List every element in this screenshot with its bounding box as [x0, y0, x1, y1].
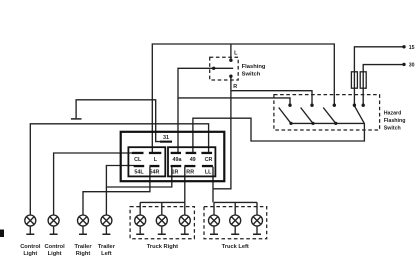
- svg-text:49a: 49a: [173, 157, 183, 163]
- svg-text:31: 31: [163, 135, 169, 141]
- svg-text:Trailer: Trailer: [98, 244, 116, 250]
- svg-text:L: L: [234, 50, 238, 56]
- svg-text:49: 49: [190, 157, 196, 163]
- svg-text:Trailer: Trailer: [74, 244, 92, 250]
- svg-text:Switch: Switch: [384, 125, 401, 131]
- svg-text:RR: RR: [186, 169, 194, 175]
- svg-text:Right: Right: [76, 251, 91, 257]
- svg-text:Left: Left: [101, 251, 112, 257]
- svg-text:Light: Light: [48, 251, 62, 257]
- svg-text:1R: 1R: [172, 169, 179, 175]
- svg-text:CL: CL: [134, 157, 142, 163]
- svg-text:Truck Left: Truck Left: [222, 244, 249, 250]
- svg-text:Control: Control: [20, 244, 41, 250]
- svg-text:Flashing: Flashing: [242, 64, 266, 70]
- svg-text:Switch: Switch: [242, 72, 261, 78]
- svg-text:Hazard: Hazard: [384, 110, 402, 116]
- svg-text:30: 30: [409, 62, 415, 68]
- svg-text:R: R: [233, 84, 237, 90]
- svg-text:54R: 54R: [149, 169, 159, 175]
- svg-text:Truck Right: Truck Right: [147, 244, 178, 250]
- svg-text:Flashing: Flashing: [384, 118, 406, 124]
- svg-text:LL: LL: [205, 169, 212, 175]
- svg-text:Control: Control: [44, 244, 65, 250]
- svg-text:54L: 54L: [134, 169, 144, 175]
- svg-text:Light: Light: [23, 251, 37, 257]
- svg-text:L: L: [154, 157, 158, 163]
- svg-text:CR: CR: [205, 157, 213, 163]
- svg-text:15: 15: [409, 45, 415, 51]
